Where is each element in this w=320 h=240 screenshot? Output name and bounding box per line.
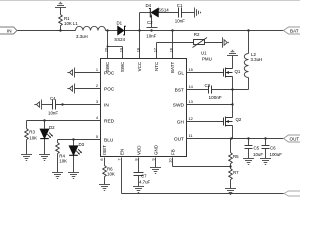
svg-text:GL: GL	[178, 70, 185, 76]
svg-text:SWC: SWC	[120, 61, 125, 72]
svg-text:BLU: BLU	[104, 137, 114, 143]
svg-text:POC: POC	[104, 86, 115, 92]
svg-text:10: 10	[168, 158, 173, 163]
svg-text:IN: IN	[104, 102, 109, 108]
svg-text:3.3uH: 3.3uH	[76, 34, 88, 39]
svg-text:7: 7	[117, 159, 122, 161]
svg-text:PMU: PMU	[202, 57, 212, 62]
svg-text:12: 12	[189, 116, 193, 121]
svg-text:SWC: SWC	[105, 61, 110, 72]
svg-text:10K: 10K	[64, 21, 72, 26]
svg-text:11: 11	[189, 133, 193, 138]
svg-text:2: 2	[96, 83, 98, 88]
svg-text:100uF: 100uF	[270, 152, 283, 157]
svg-text:OUT: OUT	[174, 136, 184, 142]
svg-text:FB: FB	[170, 149, 175, 155]
svg-text:9: 9	[151, 159, 156, 161]
svg-text:6: 6	[99, 159, 104, 161]
svg-text:R7: R7	[233, 170, 239, 175]
svg-text:C3: C3	[205, 83, 211, 88]
svg-text:14: 14	[189, 84, 194, 89]
svg-text:10nF: 10nF	[175, 18, 185, 23]
svg-text:C1: C1	[177, 3, 183, 8]
svg-text:4: 4	[96, 115, 99, 120]
svg-text:4.7uF: 4.7uF	[139, 179, 151, 184]
svg-text:3.3uH: 3.3uH	[251, 57, 263, 62]
svg-text:D3: D3	[79, 142, 85, 147]
svg-text:VCC: VCC	[137, 61, 142, 71]
svg-text:19: 19	[119, 48, 124, 52]
svg-text:R2: R2	[194, 32, 200, 37]
svg-text:5: 5	[96, 134, 98, 139]
svg-text:16: 16	[169, 48, 174, 52]
svg-text:10nF: 10nF	[146, 34, 156, 39]
svg-text:BST: BST	[175, 87, 184, 93]
svg-text:OUT: OUT	[290, 136, 300, 141]
svg-text:10uF: 10uF	[253, 152, 263, 157]
svg-text:R3: R3	[29, 130, 35, 135]
svg-text:D2: D2	[49, 125, 55, 130]
svg-text:15: 15	[189, 67, 193, 72]
svg-text:10nF: 10nF	[48, 111, 58, 116]
svg-text:IN: IN	[7, 28, 12, 33]
svg-text:10K: 10K	[29, 135, 37, 140]
svg-text:18: 18	[136, 48, 141, 52]
svg-text:C6: C6	[270, 146, 276, 151]
svg-text:NTC: NTC	[154, 61, 159, 71]
svg-text:VDD: VDD	[136, 145, 141, 155]
svg-text:BAT: BAT	[290, 28, 299, 33]
svg-text:1: 1	[96, 67, 98, 72]
svg-text:GH: GH	[177, 119, 185, 125]
svg-text:10K: 10K	[59, 158, 67, 163]
svg-text:D4: D4	[146, 3, 152, 8]
svg-text:GND: GND	[153, 144, 158, 155]
svg-text:RED: RED	[104, 118, 115, 124]
svg-text:SS24: SS24	[114, 37, 125, 42]
svg-text:C4: C4	[50, 96, 56, 101]
svg-text:Q2: Q2	[236, 117, 242, 122]
svg-text:13: 13	[189, 99, 193, 104]
svg-text:100nF: 100nF	[209, 95, 222, 100]
svg-text:L1: L1	[73, 21, 78, 26]
svg-text:C5: C5	[254, 146, 260, 151]
svg-text:C2: C2	[147, 20, 153, 25]
svg-text:U1: U1	[201, 51, 207, 56]
svg-text:D1: D1	[117, 20, 123, 25]
svg-text:SWD: SWD	[173, 102, 185, 108]
svg-text:3: 3	[96, 99, 98, 104]
svg-text:8: 8	[134, 159, 139, 161]
svg-text:Q1: Q1	[235, 69, 241, 74]
svg-text:10K: 10K	[107, 172, 115, 177]
svg-text:R5: R5	[233, 154, 239, 159]
svg-text:EN: EN	[119, 149, 124, 155]
svg-text:BATT: BATT	[170, 62, 175, 73]
svg-text:SS14: SS14	[158, 8, 169, 13]
svg-text:17: 17	[153, 48, 158, 52]
svg-text:C7: C7	[141, 174, 147, 179]
svg-text:ISET: ISET	[102, 145, 107, 155]
